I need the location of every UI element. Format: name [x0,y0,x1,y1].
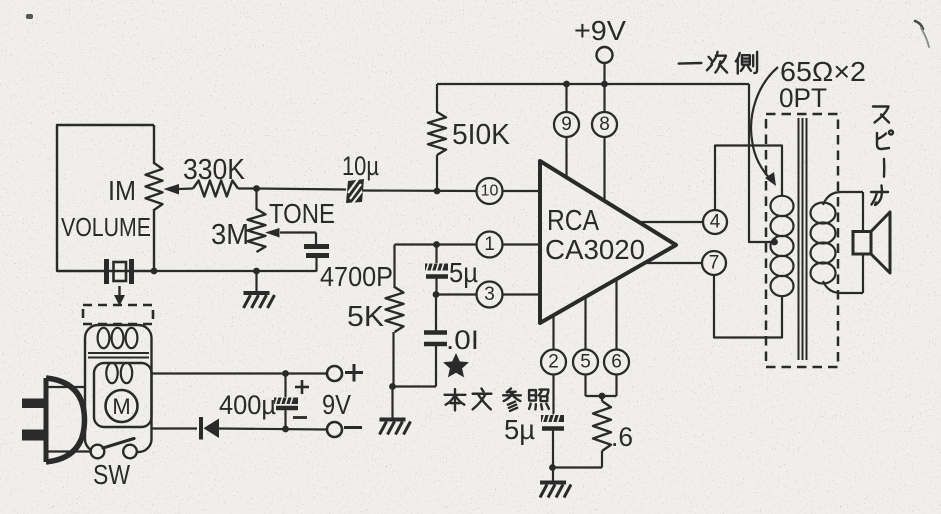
label 510K [452,119,511,151]
svg-text:8: 8 [599,114,610,135]
wire node A to 10u cap [257,189,347,190]
svg-text:6: 6 [611,352,622,373]
pickup unit box (1M VOLUME) [57,125,154,271]
pin 5 circle [573,350,598,375]
label 330K [183,154,246,186]
pin 4 circle [703,210,727,234]
junction dot 400u bottom [282,426,289,433]
battery terminal - (circle) [327,422,342,437]
pin 1 circle [477,232,503,258]
label .01 [446,325,479,355]
battery terminal + (circle) [327,366,342,381]
capacitor C5 .01 [393,295,448,387]
capacitor C3 polarity marks [293,380,309,418]
pin 5 wire upper [584,297,586,350]
label 65ohm x2 [780,56,866,87]
junction dot box corner [151,268,158,275]
resistor R2 5K [386,287,404,332]
label SW [93,459,130,490]
wire secondary top to speaker [823,192,863,231]
volume pot wiper arrow [164,184,194,195]
wire motor to - terminal (via diode) [152,429,328,430]
pin 9 wire upper [565,84,567,112]
pin 9 circle [554,112,579,137]
svg-text:RCA: RCA [547,205,600,237]
double line (motor divider) [88,353,149,358]
arrow pickup to motor unit [114,286,125,306]
pin 3 circle [477,282,503,308]
switch SW contacts [91,445,137,459]
junction dot center tap [771,239,778,246]
power plug [22,378,85,462]
wire rail corner to 510K [436,84,438,113]
svg-text:3M: 3M [211,219,249,251]
motor M1 symbol [106,390,138,422]
ground G1 (tone network) [244,293,275,308]
label ichijigawa 側 [736,52,757,74]
svg-text:10µ: 10µ [342,151,379,181]
svg-text:400µ: 400µ [219,390,276,420]
resistor R4 .6 ohm [553,396,612,468]
label CA3020 [545,234,645,265]
junction dot pin5/6 [599,393,606,400]
label .6 [611,422,633,452]
junction dot rail pin8 [601,81,608,88]
pin 1 wire right [502,243,540,245]
capacitor C6 5u (pin2) [541,375,564,482]
svg-text:5I0K: 5I0K [452,119,511,151]
resistor R1 330K [193,181,238,197]
label 5u (C4) [449,257,478,288]
pin 7 wire [645,262,702,264]
junction dot bottom join [549,464,556,471]
svg-text:3: 3 [484,284,495,305]
tone pot wiper arrow and wire [265,228,316,244]
junction dot rail pin9 [563,81,570,88]
label honbun-sansho (see text) 本 [445,389,466,410]
junction dot 3M bottom [253,268,260,275]
star mark (see text) [443,353,469,377]
wire 510K to node B [436,155,438,191]
wire pin3 segment [436,293,477,295]
svg-text:7: 7 [709,253,720,274]
node A junction dot [253,185,260,192]
scan scratch top-right [915,21,929,47]
motor inner case [94,363,152,427]
wire pin4 to primary top [715,146,782,211]
svg-text:IM: IM [108,175,136,206]
switch SW lever [103,439,134,449]
wire plug to motor case (top) [47,386,85,388]
wire junction to ground G2 [391,387,393,419]
junction dot 5K bottom [389,383,396,390]
junction dot C4 top [433,241,440,248]
pickup coil (3 loops) [98,328,138,348]
wire pin5 pin6 join [586,375,617,397]
dashed box (pickup head) [83,305,153,324]
pin 6 circle [604,350,629,375]
label speaker ka カ [871,186,888,206]
transformer T1 dashed box [766,114,838,367]
label - (battery) [344,426,362,429]
svg-text:5: 5 [580,352,591,373]
wire pin7 to primary bottom [714,275,782,338]
svg-text:5K: 5K [347,301,385,333]
svg-text:CA3020: CA3020 [545,234,645,265]
speaker SP1 [853,212,890,273]
wire pin1 left segment [395,243,478,245]
pin 3 wire right [502,293,540,295]
wire bottom rail (box to 4700P) [154,270,317,272]
transformer secondary winding [811,203,836,284]
pin 2 circle [541,350,566,375]
label 9V [322,389,351,420]
pin 4 wire [640,221,703,223]
label 3M [211,219,249,251]
label 400u [219,390,276,420]
svg-text:SW: SW [93,459,130,490]
wire rail to center tap [749,84,772,242]
svg-text:4: 4 [710,212,721,233]
svg-text:9: 9 [561,114,572,135]
label speaker su ス [873,107,889,123]
wire 10u cap to node B [362,189,477,192]
svg-text:9V: 9V [322,389,351,420]
pin 8 circle [592,112,617,137]
pin 10 circle [477,178,503,204]
capacitor C2 4700P plates [304,247,329,272]
capacitor C1 10u (hatched box) [346,178,364,204]
resistor R3 510K [428,112,446,155]
svg-text:.6: .6 [611,422,633,452]
pin 8 wire upper [603,63,605,112]
label 4700P [320,261,393,292]
label VOLUME [61,212,151,242]
label + (battery) [345,364,363,382]
label honbun-sansho 文 [473,389,492,410]
svg-text:VOLUME: VOLUME [61,212,151,242]
capacitor C3 400u [274,374,298,430]
ground G2 (5K / .01) [380,420,411,435]
pin 6 wire upper [615,280,617,351]
svg-text:1: 1 [484,234,495,255]
label +9V [574,15,626,46]
switch SW gap mask [101,443,125,460]
label 5K [347,301,385,333]
svg-text:4700P: 4700P [320,261,393,292]
node B junction dot (510K bottom) [434,188,441,195]
label OPT [779,83,827,113]
svg-text:0PT: 0PT [779,83,827,113]
svg-text:5µ: 5µ [449,257,478,288]
label honbun-sansho 参 [503,389,521,411]
capacitor C4 5u [425,245,448,295]
pin 7 circle [702,251,726,275]
potentiometer VR2 3M (tone) zigzag [248,209,266,252]
svg-text:.0I: .0I [446,325,479,355]
label speaker pi ピ [877,131,893,150]
svg-text:TONE: TONE [269,198,335,229]
svg-text:10: 10 [481,183,499,200]
potentiometer VR1 1M (volume) zigzag [146,163,163,210]
svg-text:M: M [112,394,130,419]
wire secondary bottom to speaker [823,254,863,293]
pin 9 wire lower [565,137,567,178]
label TONE [269,198,335,229]
annotation arrow to primary [751,67,778,186]
pin 8 wire lower [603,137,605,202]
svg-text:+9V: +9V [574,15,626,46]
label ichijigawa 次 [707,52,727,73]
junction dot 400u top [282,370,289,377]
wire 330K to node A [238,187,258,189]
pin 2 wire upper [552,316,554,351]
wire node A down to tone pot [255,189,257,211]
label speaker bou ー [879,159,889,177]
wire 5K to junction [392,332,394,386]
scan speck top-left [26,14,33,19]
svg-text:5µ: 5µ [504,414,535,445]
label 10u [342,151,379,181]
svg-text:330K: 330K [183,154,246,186]
label RCA [547,205,600,237]
wire +9V rail [437,83,749,85]
wire plug to switch (bottom) [47,450,90,452]
+9V terminal circle [597,47,613,63]
motor unit outer case [85,325,152,452]
ground G3 (pin2) [540,483,571,498]
corner pin1 to 5K [393,245,395,289]
diode D1 [201,417,219,440]
junction dot C4 bottom [433,291,440,298]
wire motor to + terminal [152,372,328,374]
motor coil (2 loops) [106,363,132,383]
label 5u (C6) [504,414,535,445]
transformer core lines [799,118,807,360]
op-amp U1 CA3020 triangle [540,161,676,323]
pin 10 wire [502,190,540,192]
wire 3M bottom to ground [255,271,257,292]
label ichijigawa (primary side) 一 [679,59,702,68]
svg-text:2: 2 [548,352,559,373]
transformer primary winding [771,196,794,296]
crystal pickup element [107,259,132,284]
label IM [108,175,136,206]
label honbun-sansho 照 [529,390,549,410]
